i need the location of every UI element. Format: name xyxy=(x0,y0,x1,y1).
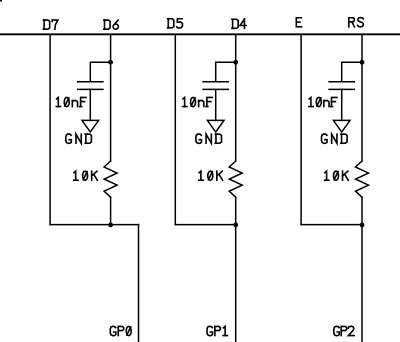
wire D4 vertical drop to resistor xyxy=(235,34,237,161)
junction node at resistor bottom xyxy=(233,223,238,228)
pin label RS xyxy=(349,18,364,27)
value label 10K xyxy=(325,171,349,180)
capacitor C1 xyxy=(78,82,103,121)
wire E vertical drop xyxy=(300,34,302,224)
wire bottom horizontal xyxy=(301,224,362,226)
capacitor C2 xyxy=(203,82,228,121)
value label 10nF xyxy=(309,97,337,106)
wire capacitor branch xyxy=(90,62,110,81)
junction node on D4 net xyxy=(233,60,238,65)
wire GP0 vertical to edge xyxy=(138,225,140,342)
label GND xyxy=(196,134,222,143)
wire GP1 vertical to edge xyxy=(235,225,237,342)
wire D6 vertical drop to resistor xyxy=(110,34,112,161)
resistor R1 xyxy=(104,161,117,197)
pin label D7 xyxy=(43,20,58,29)
bus wire (top horizontal rail) xyxy=(0,33,400,35)
ground symbol xyxy=(333,120,350,132)
net label GP2 xyxy=(334,326,354,335)
pin label D4 xyxy=(232,19,246,28)
pin label D6 xyxy=(104,20,119,29)
pin label E xyxy=(296,18,301,27)
resistor R3 xyxy=(356,161,369,197)
ground symbol xyxy=(82,120,99,132)
capacitor C3 xyxy=(329,82,354,121)
wire resistor bottom lead xyxy=(110,197,112,224)
label GND xyxy=(66,134,92,143)
value label 10nF xyxy=(56,97,86,106)
ground symbol xyxy=(207,120,224,132)
wire resistor bottom lead xyxy=(235,197,237,224)
wire capacitor branch xyxy=(216,62,236,81)
value label 10K xyxy=(199,171,223,180)
net label GP1 xyxy=(207,326,227,335)
junction node on RS net xyxy=(360,60,365,65)
value label 10nF xyxy=(183,97,213,106)
value label 10K xyxy=(74,171,98,180)
wire D5 vertical drop xyxy=(174,34,176,224)
wire D7 vertical drop xyxy=(49,34,51,224)
wire capacitor branch xyxy=(342,62,362,81)
wire RS vertical drop to resistor xyxy=(361,34,363,161)
junction node at resistor bottom xyxy=(108,223,113,228)
label GND xyxy=(322,134,348,143)
net label GP0 xyxy=(110,326,131,335)
wire bottom horizontal xyxy=(50,224,138,226)
junction node at resistor bottom xyxy=(360,223,365,228)
resistor R2 xyxy=(229,161,242,197)
corner mark (cropped border) xyxy=(0,0,2,2)
wire resistor bottom lead xyxy=(361,197,363,224)
wire bottom horizontal xyxy=(175,224,235,226)
wire GP2 vertical to edge xyxy=(361,225,363,342)
pin label D5 xyxy=(168,19,183,28)
junction node on D6 net xyxy=(108,60,113,65)
